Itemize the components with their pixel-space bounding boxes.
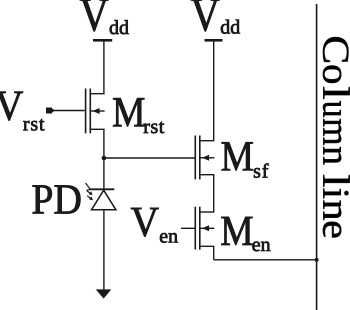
transistor M_rst: [86, 89, 105, 134]
label PD: [33, 185, 81, 213]
wire V_rst to M_rst gate: [52, 110, 85, 112]
column line wire: [316, 4, 318, 310]
wire Vdd-right to M_sf drain: [213, 42, 215, 141]
photodiode PD: [89, 189, 116, 210]
transistor M_sf: [195, 136, 214, 180]
wire M_en source down: [213, 246, 215, 259]
wire M_en to column line: [214, 259, 317, 261]
ground arrow: [96, 289, 112, 298]
wire M_sf source to M_en drain: [213, 175, 215, 212]
wire V_en to M_en gate: [181, 227, 195, 229]
photon arrows: [86, 183, 94, 200]
wire M_rst source to sense node: [103, 129, 105, 189]
label M_rst: [113, 98, 164, 133]
label V_en: [131, 208, 178, 243]
wire Vdd-left to M_rst drain: [103, 42, 105, 94]
label Vdd (left supply): [80, 0, 129, 34]
power bar Vdd left: [93, 39, 112, 42]
wire PD anode to ground: [103, 210, 105, 290]
label Column line: [323, 37, 350, 238]
node column junction dot: [315, 258, 319, 262]
label M_sf: [222, 142, 269, 177]
wire sense node to M_sf gate: [104, 157, 195, 159]
terminal square V_rst input: [46, 108, 55, 114]
node sense junction dot: [102, 156, 107, 161]
power bar Vdd right: [205, 39, 223, 42]
transistor M_en: [195, 207, 214, 250]
label V_rst: [0, 92, 44, 131]
label Vdd (right supply): [191, 0, 240, 34]
label M_en: [221, 217, 270, 251]
